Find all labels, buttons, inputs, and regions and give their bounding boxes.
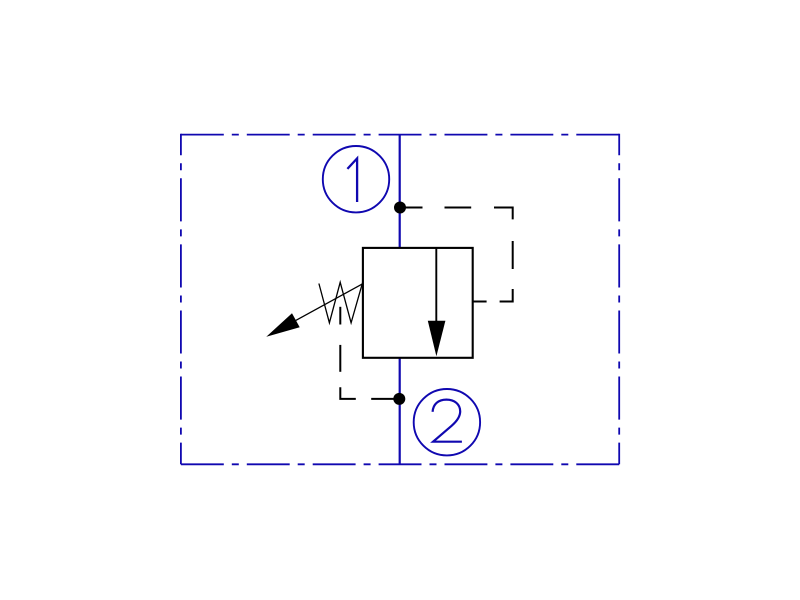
numeral 1	[347, 158, 357, 202]
pilot line dash (node1 to right)	[406, 207, 423, 209]
node junction at port 1	[394, 202, 406, 214]
numeral 2	[433, 400, 462, 442]
adjustment arrowhead	[266, 313, 299, 336]
pilot line corner dash (top right)	[494, 208, 513, 220]
envelope boundary right	[618, 134, 620, 465]
pilot line dash (right vertical)	[512, 241, 514, 269]
flow arrowhead	[428, 321, 446, 356]
envelope boundary (dash-dot border) top	[181, 134, 619, 136]
node junction at port 2	[393, 393, 405, 405]
wire port 2 (vertical line from valve body to bottom border)	[399, 358, 401, 465]
spring (zigzag)	[319, 282, 363, 323]
port label circle 2	[414, 389, 480, 455]
envelope boundary left	[180, 134, 182, 465]
port label circle 1	[323, 146, 389, 212]
drain line dash (below spring)	[339, 307, 341, 325]
envelope boundary bottom	[181, 463, 619, 465]
adjustment arrow shaft	[296, 284, 363, 321]
pilot line dash	[445, 207, 472, 209]
drain line dash	[339, 345, 341, 372]
drain line corner dash (bottom left)	[340, 387, 356, 399]
valve body (square envelope)	[363, 248, 473, 358]
flow path line inside valve	[435, 249, 437, 322]
pilot line dash into valve right side	[473, 301, 487, 303]
pilot line corner dash (bottom right)	[500, 289, 513, 302]
wire port 1 (vertical line from top border to valve body)	[399, 135, 401, 248]
drain line dash to node 2	[371, 398, 394, 400]
